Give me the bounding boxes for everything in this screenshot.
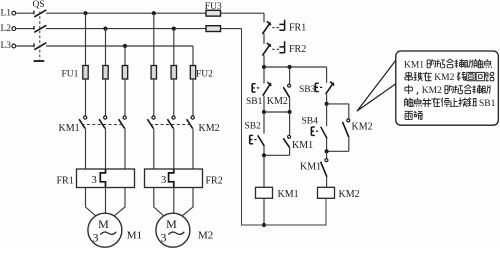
svg-text:FR2: FR2 [206, 176, 223, 187]
wire return rail from L2 [242, 29, 265, 225]
wire phase M1-W fuse to contact [124, 79, 126, 115]
junction node A / aux branch [288, 65, 292, 69]
wire KM2 aux top [289, 67, 291, 84]
svg-text:KM2: KM2 [352, 122, 373, 133]
svg-text:KM2: KM2 [434, 73, 454, 83]
junction L2/phase-B2 [172, 27, 176, 31]
node E junction [325, 149, 329, 153]
contactor KM1 main contact M1-U [79, 116, 87, 128]
svg-text:KM2: KM2 [422, 86, 442, 96]
fuse FU2 pole M2-V [171, 66, 176, 80]
switch QS pole L3 contact tick [33, 43, 35, 47]
button SB4 (start, NO) [311, 127, 327, 139]
junction bottom / KM1 [262, 223, 266, 227]
node B bus [264, 111, 290, 113]
label M2 [198, 229, 213, 241]
fuse FU3 element 2 (L2) [206, 26, 221, 32]
wire control rail from L1 [263, 13, 265, 22]
node C bus [264, 154, 290, 156]
coil KM2 [318, 187, 335, 198]
thermal relay FR2 heater element [169, 169, 174, 188]
wire phase M2-W upper [192, 46, 194, 66]
wire phase M2-V contact to relay [173, 128, 175, 169]
label SB4 [302, 117, 319, 127]
wire KM1 aux top [289, 112, 291, 135]
junction L1/phase-A1 [83, 11, 87, 15]
svg-text:FU2: FU2 [196, 70, 213, 80]
svg-text:QS: QS [33, 0, 45, 10]
svg-text:SB4: SB4 [302, 117, 319, 127]
wire SB3 to node D [326, 94, 328, 104]
label SB1 [246, 97, 263, 107]
label L1 [1, 8, 12, 18]
svg-text:M: M [98, 217, 109, 231]
wire phase M2-V fuse to contact [173, 79, 175, 115]
terminal L3 [12, 44, 16, 48]
motor M1 text M [98, 217, 109, 231]
svg-text:KM1: KM1 [300, 162, 321, 173]
node D bus [327, 103, 349, 105]
wire L1 bus [46, 12, 206, 14]
wire L3 bus [46, 45, 193, 47]
annotation callout box [396, 51, 499, 125]
wire phase M1-U contact to relay [85, 128, 87, 169]
label L3 [1, 41, 12, 51]
svg-text:L3: L3 [1, 41, 12, 51]
label KM2 (main contacts) [199, 123, 220, 134]
svg-text:3: 3 [93, 231, 99, 245]
coil KM1 [256, 187, 273, 198]
label FR2 [206, 176, 223, 187]
button SB3 (stop, NC) [315, 82, 334, 95]
svg-text:M2: M2 [198, 229, 213, 241]
label FR2 (control) [289, 44, 306, 55]
svg-text:KM1: KM1 [404, 60, 424, 70]
wire phase M2-V upper [173, 29, 175, 66]
svg-text:M1: M1 [127, 229, 142, 241]
wire KM2 aux-R top [348, 104, 350, 119]
wire phase M2-W contact to relay [192, 128, 194, 169]
switch QS pole L1 blade [34, 10, 46, 17]
svg-text:FR2: FR2 [289, 44, 306, 55]
junction L1/phase-A2 [152, 11, 156, 15]
label M1 [127, 229, 142, 241]
wire SB1 top [263, 67, 265, 84]
wire SB4 top [326, 104, 328, 126]
thermal relay FR1 box [77, 169, 135, 188]
wire phase M1-W contact to relay [124, 128, 126, 169]
contactor KM1 main contact M1-W [119, 116, 127, 128]
label KM2 (coil) [339, 189, 360, 200]
thermal relay FR1 NC contact [262, 20, 284, 34]
terminal L2 [12, 27, 16, 31]
motor M1 text 3 [93, 231, 99, 245]
label FU1 [62, 70, 79, 80]
svg-text:KM1: KM1 [292, 140, 313, 151]
wire rail FR2 to node A [263, 55, 265, 67]
label FU3 [205, 2, 222, 12]
svg-text:SB3: SB3 [299, 85, 316, 95]
wire L2 to QS [16, 28, 34, 30]
wire L2 to return rail [221, 28, 242, 30]
wire L1 to QS [16, 12, 34, 14]
wire node A bus to right branch [264, 66, 327, 68]
label KM1 (main contacts) [59, 123, 80, 134]
label FR1 (control) [289, 23, 306, 34]
wire SB1 bottom [263, 96, 265, 112]
label QS [33, 0, 45, 10]
label FU2 [196, 70, 213, 80]
label 3 (poles of FR1) [92, 175, 97, 186]
node D junction [325, 102, 329, 106]
wire phase M1-U upper [85, 13, 87, 65]
wire SB2 bottom [263, 146, 265, 155]
wire node A to SB3 [326, 67, 328, 83]
svg-text:SB2: SB2 [245, 121, 262, 131]
wire phase M1-W upper [124, 46, 126, 66]
svg-text:FR1: FR1 [289, 23, 306, 34]
label FR1 [57, 176, 74, 187]
wire phase M1-V contact to relay [105, 128, 107, 169]
label 3 (poles of FR2) [161, 175, 166, 186]
fuse FU1 pole M1-W [122, 66, 127, 80]
svg-text:SB1: SB1 [479, 99, 496, 109]
motor M1 wave [100, 232, 116, 235]
contactor KM2 auxiliary NO contact (hold-in) [343, 119, 350, 137]
wire phase M1-V fuse to contact [105, 79, 107, 115]
svg-text:3: 3 [92, 175, 97, 186]
label KM1 (aux hold-in) [292, 140, 313, 151]
contactor KM2 auxiliary NO contact (across SB1) [283, 84, 290, 97]
svg-text:FR1: FR1 [57, 176, 74, 187]
motor M2 wave [168, 232, 184, 235]
motor M2 body [156, 213, 190, 247]
switch QS pole L1 contact tick [33, 11, 35, 15]
node B junction right [288, 110, 292, 114]
switch QS pole L2 blade [34, 25, 46, 32]
motor M1 body [88, 213, 122, 247]
svg-text:3: 3 [161, 175, 166, 186]
node C junction [262, 153, 266, 157]
button SB1 (stop, NC) [252, 82, 271, 96]
contactor KM2 main contact M2-W [187, 116, 195, 128]
label KM1 (interlock) [300, 162, 321, 173]
svg-text:KM1: KM1 [278, 189, 299, 200]
svg-text:KM2: KM2 [339, 189, 360, 200]
fuse FU2 pole M2-U [151, 66, 156, 80]
svg-text:KM2: KM2 [267, 96, 288, 107]
thermal relay FR2 NC contact [262, 41, 284, 55]
fuse FU3 element 1 (L1) [206, 10, 221, 16]
node E bus [327, 150, 349, 152]
wire KM2 coil to bottom [264, 198, 326, 225]
motor M2 text 3 [161, 231, 167, 245]
annotation callout tail [357, 60, 396, 111]
svg-text:KM1: KM1 [59, 123, 80, 134]
contactor KM1 main contact M1-V [99, 116, 107, 128]
fuse FU2 pole M2-W [190, 66, 195, 80]
svg-text:L1: L1 [1, 8, 12, 18]
wire motor M2 lead V [173, 188, 175, 214]
wire KM1 coil to bottom [263, 198, 265, 225]
junction L3/phase-C1 [123, 44, 127, 48]
label SB2 [245, 121, 262, 131]
label SB3 [299, 85, 316, 95]
wire L1 to control rail [221, 12, 265, 14]
svg-text:M: M [166, 217, 177, 231]
wire node E to KM1 interlock [326, 151, 328, 158]
wire motor M1 lead U [86, 188, 98, 218]
wire interlock to KM2 coil [326, 177, 328, 188]
wire rail FR1-FR2 [263, 34, 265, 44]
switch QS handle bar [34, 60, 45, 62]
wire SB4 bottom [326, 138, 328, 151]
wire phase M2-U fuse to contact [153, 79, 155, 115]
label L2 [1, 24, 12, 34]
wire phase M2-U upper [153, 13, 155, 65]
fuse FU1 pole M1-V [103, 66, 108, 80]
wire phase M1-V upper [105, 29, 107, 66]
svg-text:L2: L2 [1, 24, 12, 34]
switch QS link (dashed) [39, 12, 41, 61]
annotation text [404, 59, 496, 119]
label KM2 (aux hold-in) [352, 122, 373, 133]
wire L2 bus [46, 28, 206, 30]
label KM2 (aux across SB1) [267, 96, 288, 107]
wire KM2 aux bottom [289, 98, 291, 112]
junction L2/phase-B1 [103, 27, 107, 31]
wire KM2 aux-R bottom [348, 137, 350, 151]
thermal relay FR2 box [145, 169, 203, 188]
wire to KM1 coil [263, 155, 265, 187]
wire motor M2 lead W [181, 188, 194, 218]
contactor KM2 link (dashed) [150, 124, 192, 126]
switch QS pole L2 contact tick [33, 26, 35, 30]
svg-text:SB1: SB1 [246, 97, 263, 107]
wire L3 to QS [16, 45, 34, 47]
node B junction left [262, 110, 266, 114]
switch QS pole L3 blade [34, 43, 46, 50]
contactor KM1 auxiliary NO contact (interlock) [321, 159, 328, 177]
terminal L1 [12, 11, 16, 15]
motor M2 text M [166, 217, 177, 231]
contactor KM2 main contact M2-U [147, 116, 155, 128]
svg-text:FU1: FU1 [62, 70, 79, 80]
wire SB2 top [263, 112, 265, 134]
contactor KM1 link (dashed) [82, 124, 124, 126]
svg-text:3: 3 [161, 231, 167, 245]
wire motor M1 lead V [105, 188, 107, 214]
wire motor M2 lead U [154, 188, 166, 218]
wire phase M2-U contact to relay [153, 128, 155, 169]
fuse FU1 pole M1-U [83, 66, 88, 80]
button SB2 (start, NO) [250, 135, 265, 146]
contactor KM2 main contact M2-V [167, 116, 175, 128]
wire KM1 aux bottom [289, 148, 291, 156]
label KM1 (coil) [278, 189, 299, 200]
svg-text:KM2: KM2 [199, 123, 220, 134]
thermal relay FR1 heater element [100, 169, 105, 188]
contactor KM1 auxiliary NO contact (hold-in) [283, 135, 290, 147]
wire phase M1-U fuse to contact [85, 79, 87, 115]
wire motor M1 lead W [113, 188, 126, 218]
wire phase M2-W fuse to contact [192, 79, 194, 115]
node A junction [262, 65, 266, 69]
